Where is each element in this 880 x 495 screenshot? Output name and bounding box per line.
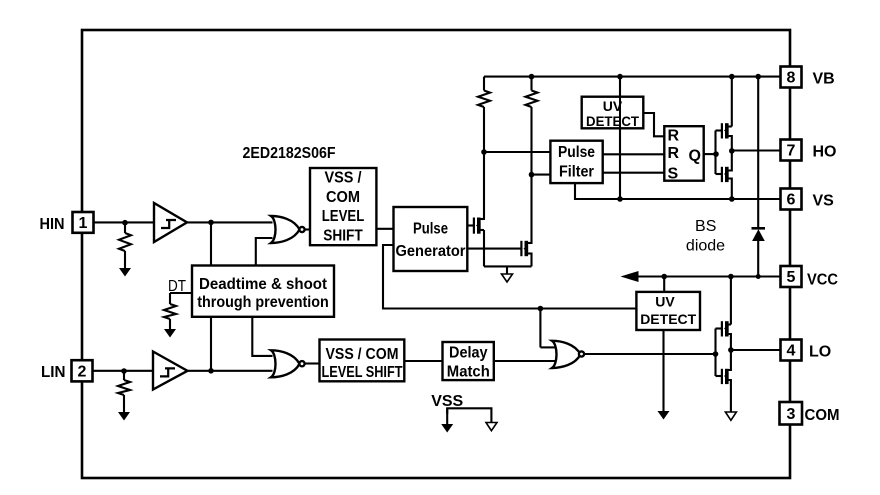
svg-text:Pulse: Pulse xyxy=(413,221,448,238)
svg-text:COM: COM xyxy=(326,189,360,206)
svg-text:Pulse: Pulse xyxy=(558,144,595,161)
svg-text:8: 8 xyxy=(787,70,796,87)
svg-text:Q: Q xyxy=(689,148,701,165)
svg-text:Filter: Filter xyxy=(559,164,594,181)
svg-text:HIN: HIN xyxy=(40,216,65,233)
svg-text:6: 6 xyxy=(787,192,796,209)
svg-text:HO: HO xyxy=(813,144,837,161)
svg-text:DETECT: DETECT xyxy=(640,311,696,327)
svg-text:BS: BS xyxy=(695,218,716,235)
svg-text:R: R xyxy=(668,145,680,162)
svg-text:VS: VS xyxy=(813,193,835,210)
svg-text:S: S xyxy=(668,166,679,183)
svg-text:COM: COM xyxy=(805,407,840,424)
svg-text:3: 3 xyxy=(787,406,796,423)
svg-text:diode: diode xyxy=(686,238,725,255)
svg-text:1: 1 xyxy=(79,215,88,232)
svg-text:VB: VB xyxy=(813,71,835,88)
svg-text:VSS / COM: VSS / COM xyxy=(326,346,399,363)
svg-text:2: 2 xyxy=(78,364,87,381)
svg-text:Generator: Generator xyxy=(396,243,466,260)
svg-text:VCC: VCC xyxy=(807,272,838,289)
svg-text:2ED2182S06F: 2ED2182S06F xyxy=(243,145,336,162)
svg-text:DT: DT xyxy=(168,278,186,295)
svg-text:4: 4 xyxy=(787,343,796,360)
svg-text:5: 5 xyxy=(787,269,796,286)
svg-text:Match: Match xyxy=(447,364,490,381)
svg-text:UV: UV xyxy=(655,293,675,309)
svg-text:LIN: LIN xyxy=(41,364,66,381)
svg-text:LEVEL SHIFT: LEVEL SHIFT xyxy=(322,364,403,381)
svg-text:VSS: VSS xyxy=(431,393,463,410)
svg-text:LO: LO xyxy=(809,344,831,361)
svg-text:DETECT: DETECT xyxy=(586,113,639,129)
svg-text:Deadtime & shoot: Deadtime & shoot xyxy=(199,276,328,293)
svg-text:through prevention: through prevention xyxy=(197,294,329,311)
svg-text:SHIFT: SHIFT xyxy=(323,228,363,245)
svg-text:R: R xyxy=(668,127,680,144)
svg-text:VSS /: VSS / xyxy=(325,170,363,187)
svg-text:7: 7 xyxy=(787,143,796,160)
svg-text:Delay: Delay xyxy=(449,344,488,361)
svg-text:LEVEL: LEVEL xyxy=(322,208,365,225)
